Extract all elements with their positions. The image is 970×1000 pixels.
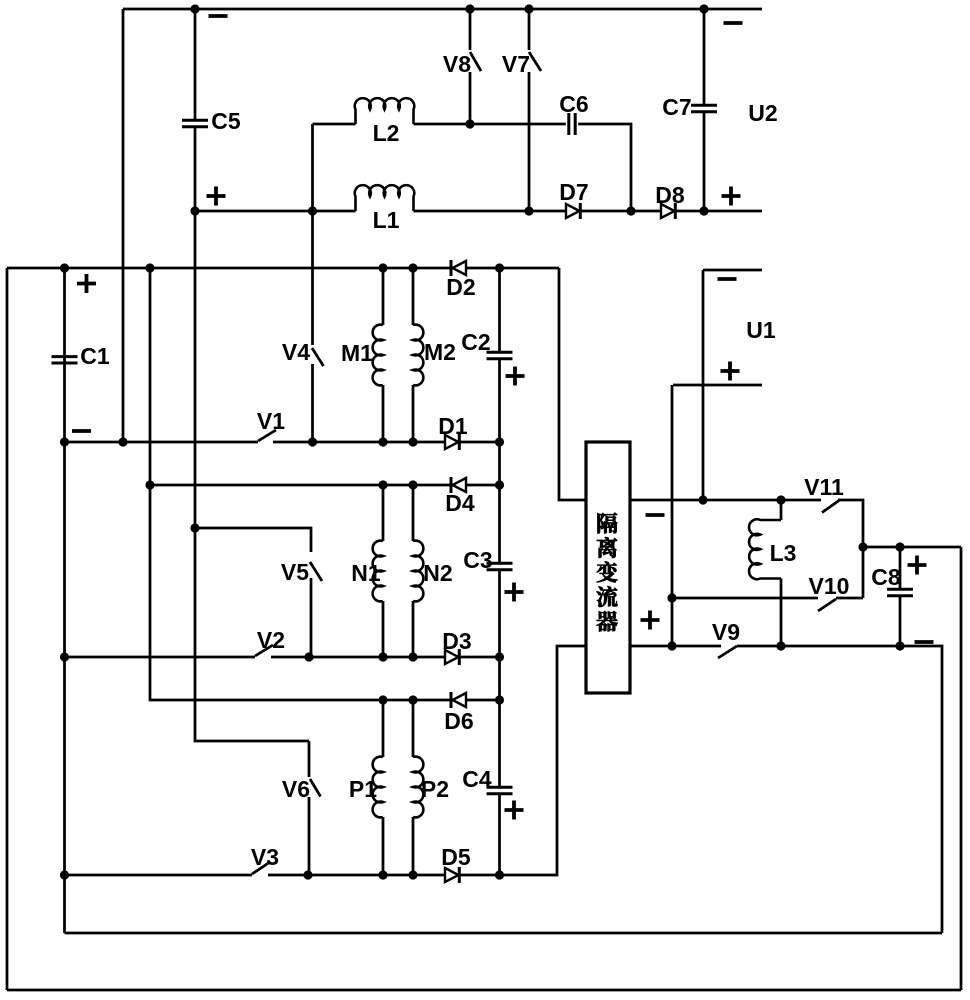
node junction at (781,646) xyxy=(776,641,785,650)
svg-text:D2: D2 xyxy=(446,274,475,300)
wire V4 lower lead xyxy=(311,364,314,442)
node junction at (499.5,268) xyxy=(495,263,504,272)
node junction at (413,485) xyxy=(408,480,417,489)
wire V1 rail left segment xyxy=(65,441,259,444)
polarity plus at C1 top xyxy=(77,274,96,293)
switch V11 blade xyxy=(822,501,839,513)
node junction at (383,485) xyxy=(378,480,387,489)
wire top bus (U2 minus rail) xyxy=(123,8,762,11)
node junction at (383,657) xyxy=(378,652,387,661)
node junction at (499.5,657) xyxy=(495,652,504,661)
node junction at (383,268) xyxy=(378,263,387,272)
capacitor C3 xyxy=(463,547,512,573)
wire C6 to D7 drop xyxy=(578,124,631,211)
wire V5 feed from x=195 xyxy=(195,528,311,552)
node junction at (195,9) xyxy=(190,4,199,13)
polarity minus at U1 xyxy=(718,277,737,281)
wire L3 lower lead xyxy=(780,579,783,647)
svg-text:V9: V9 xyxy=(712,619,740,645)
svg-text:V4: V4 xyxy=(282,339,310,365)
wire L3 upper lead xyxy=(780,500,783,520)
inductor N1 xyxy=(351,541,383,602)
wire V2 rail right segment through D3 xyxy=(271,656,500,659)
svg-text:C1: C1 xyxy=(80,343,110,369)
svg-text:C6: C6 xyxy=(559,91,588,117)
switch V3 blade xyxy=(252,862,270,874)
wire V3 rail left segment xyxy=(65,874,253,877)
node junction at (413,268) xyxy=(408,263,417,272)
svg-text:N2: N2 xyxy=(423,560,452,586)
wire capacitor stack bus seg3 xyxy=(498,570,501,787)
wire V11 right segment to corner xyxy=(838,500,863,598)
wire x=150 drop with D6 rail xyxy=(150,268,500,700)
polarity plus at C5 bottom rail xyxy=(207,187,226,206)
inductor P2 xyxy=(413,757,449,818)
diode D5 xyxy=(441,844,471,883)
node junction at (900,547) xyxy=(895,542,904,551)
node junction at (900,646) xyxy=(895,641,904,650)
switch V8 blade xyxy=(470,52,481,71)
polarity minus at C8 xyxy=(915,640,934,644)
wire V4 upper lead from L2/L1 junction xyxy=(311,124,314,345)
svg-text:V5: V5 xyxy=(281,559,309,585)
wire M2 leads xyxy=(412,268,415,442)
capacitor C2 xyxy=(461,329,512,359)
wire P1 leads xyxy=(382,700,385,875)
switch V4 blade xyxy=(312,348,324,366)
capacitor C8 xyxy=(871,564,913,596)
node junction at (413,700) xyxy=(408,695,417,704)
wire V6 upper lead xyxy=(308,741,311,777)
inductor L1 xyxy=(355,185,415,233)
wire C5 branch lower lead xyxy=(194,127,197,211)
wire main minus bus y=268 through D2 xyxy=(7,267,559,270)
svg-text:V1: V1 xyxy=(257,408,285,434)
svg-text:V8: V8 xyxy=(443,51,471,77)
inductor L2 xyxy=(355,98,414,146)
node junction at (470,124) xyxy=(465,119,474,128)
diode D1 xyxy=(438,413,468,450)
wire left drop from top bus to V1 rail xyxy=(122,9,125,442)
svg-text:V3: V3 xyxy=(251,844,279,870)
wire capacitor stack bus seg4 xyxy=(498,794,501,875)
wire V3 rail mid segment through D5 xyxy=(268,646,586,875)
svg-text:V11: V11 xyxy=(804,474,844,500)
node junction at (470,9) xyxy=(465,4,474,13)
svg-text:N1: N1 xyxy=(351,560,381,586)
wire left bus x=63 xyxy=(63,268,66,933)
wire bottom return bus xyxy=(65,932,943,935)
node junction at (64.5,875) xyxy=(60,870,69,879)
svg-text:C2: C2 xyxy=(461,329,490,355)
svg-text:D8: D8 xyxy=(655,182,685,208)
node junction at (312.5,211) xyxy=(308,206,317,215)
svg-text:U2: U2 xyxy=(748,100,777,126)
inductor M2 xyxy=(413,325,456,386)
wire V1 rail right segment through D1 xyxy=(273,441,500,444)
svg-text:V10: V10 xyxy=(809,573,850,599)
polarity plus at C4 xyxy=(505,801,524,820)
node junction at (64.5,657) xyxy=(60,652,69,661)
capacitor C6 xyxy=(559,91,588,135)
wire L2 rail left segment xyxy=(313,123,356,126)
wire V7 upper lead xyxy=(528,9,531,50)
node junction at (781,500) xyxy=(776,495,785,504)
svg-text:P1: P1 xyxy=(349,776,377,802)
svg-text:M2: M2 xyxy=(424,339,456,365)
wire outer loop right side xyxy=(960,547,963,990)
svg-text:V2: V2 xyxy=(257,627,285,653)
polarity plus at U2 xyxy=(722,187,741,206)
node junction at (308,875) xyxy=(303,870,312,879)
svg-text:D1: D1 xyxy=(438,413,468,439)
diode D8 xyxy=(655,182,685,219)
diode D6 xyxy=(444,692,473,734)
wire U1 minus lead drop xyxy=(702,270,705,500)
node junction at (704,9) xyxy=(699,4,708,13)
node junction at (195,528) xyxy=(190,523,199,532)
capacitor C1 xyxy=(52,343,110,369)
wire outer loop left side xyxy=(6,268,9,990)
node junction at (64.5,268) xyxy=(60,263,69,272)
polarity minus at converter output xyxy=(646,513,665,517)
wire C8 top rail xyxy=(863,546,961,549)
wire V10 rail right segment xyxy=(836,597,863,600)
svg-text:V7: V7 xyxy=(502,51,530,77)
node junction at (499.5,442) xyxy=(495,437,504,446)
node junction at (195,211) xyxy=(190,206,199,215)
wire capacitor stack bus seg2 xyxy=(498,359,501,563)
svg-text:L2: L2 xyxy=(373,120,400,146)
node junction at (529,211) xyxy=(524,206,533,215)
svg-text:M1: M1 xyxy=(341,340,373,366)
wire V7 lower lead xyxy=(528,72,531,211)
wire N2 leads xyxy=(412,485,415,657)
polarity plus at C3 xyxy=(505,583,524,602)
svg-text:D4: D4 xyxy=(445,490,475,516)
inductor P1 xyxy=(349,757,383,818)
svg-text:D7: D7 xyxy=(559,179,588,205)
capacitor C7 xyxy=(662,94,717,120)
node junction at (150,485) xyxy=(145,480,154,489)
node junction at (383,442) xyxy=(378,437,387,446)
switch V1 blade xyxy=(258,430,276,441)
node junction at (309,657) xyxy=(304,652,313,661)
polarity plus at C2 xyxy=(506,367,525,386)
wire P2 leads xyxy=(412,700,415,875)
node junction at (863,547) xyxy=(858,542,867,551)
wire V5 lower lead xyxy=(310,578,313,657)
svg-text:D3: D3 xyxy=(442,628,471,654)
wire V8 lower lead xyxy=(469,72,472,124)
node junction at (703,500) xyxy=(698,495,707,504)
isolation converter U3 (隔离变流器) xyxy=(586,442,630,693)
svg-text:L3: L3 xyxy=(770,540,797,566)
node junction at (383,700) xyxy=(378,695,387,704)
inductor L3 xyxy=(749,519,796,579)
svg-text:C4: C4 xyxy=(462,766,492,792)
diode D2 xyxy=(446,260,475,300)
node junction at (413,875) xyxy=(408,870,417,879)
svg-text:V6: V6 xyxy=(282,776,310,802)
node junction at (529,9) xyxy=(524,4,533,13)
node junction at (672,646) xyxy=(667,641,676,650)
svg-text:C5: C5 xyxy=(211,108,241,134)
wire capacitor stack bus seg1 xyxy=(498,268,501,352)
node junction at (631,211) xyxy=(626,206,635,215)
wire V9 rail right drop xyxy=(737,646,942,933)
svg-text:D6: D6 xyxy=(444,708,473,734)
wire C8 lower lead xyxy=(899,596,902,646)
wire L2 to C6 segment xyxy=(414,123,566,126)
wire U1 plus lead drop xyxy=(671,385,674,646)
switch V7 blade xyxy=(529,52,541,71)
wire U1 minus terminal line xyxy=(703,269,762,272)
wire V2 rail left segment xyxy=(65,656,256,659)
inductor M1 xyxy=(341,325,383,386)
wire C5/L1 plus rail y=211 xyxy=(195,210,356,213)
node junction at (123,442) xyxy=(118,437,127,446)
switch V5 blade xyxy=(310,562,322,581)
polarity plus at C8 xyxy=(908,556,927,575)
diode D7 xyxy=(559,179,588,219)
polarity plus at U1 xyxy=(721,362,740,381)
node junction at (312.5,442) xyxy=(308,437,317,446)
wire C5 branch upper lead xyxy=(194,9,197,120)
wire D4 rail through diode xyxy=(150,484,500,487)
node junction at (413,657) xyxy=(408,652,417,661)
wire C7 upper lead xyxy=(703,9,706,105)
wire converter plus output rail (V9 left) xyxy=(631,645,721,648)
wire V6 lower lead xyxy=(308,797,311,875)
polarity plus at converter output xyxy=(641,611,660,630)
wire C7 lower lead xyxy=(703,112,706,211)
node junction at (64.5,442) xyxy=(60,437,69,446)
node junction at (672,598) xyxy=(667,593,676,602)
diode D3 xyxy=(442,628,471,665)
wire L1/D7/D8 to U2 plus rail xyxy=(414,210,763,213)
wire V10 rail left segment xyxy=(672,597,818,600)
polarity minus at C5 top / U2 negative rail xyxy=(209,14,228,18)
node junction at (704,211) xyxy=(699,206,708,215)
wire outer loop bottom xyxy=(7,989,961,992)
switch V10 blade xyxy=(818,599,836,611)
wire M1 leads xyxy=(382,268,385,442)
wire U1 plus terminal line xyxy=(673,384,762,387)
wire x=195 drop (C5 plus to V6 feed) xyxy=(195,211,309,741)
svg-text:P2: P2 xyxy=(421,776,449,802)
node junction at (499.5,700) xyxy=(495,695,504,704)
capacitor C4 xyxy=(462,766,512,794)
switch V9 blade xyxy=(718,646,737,658)
wire V8 upper lead xyxy=(469,9,472,50)
polarity minus at U2 xyxy=(724,21,743,25)
wire N1 leads xyxy=(382,485,385,657)
node junction at (499.5,875) xyxy=(495,870,504,879)
wire C8 upper lead xyxy=(899,547,902,589)
switch V6 blade xyxy=(310,779,321,797)
switch V2 blade xyxy=(255,645,273,656)
polarity minus at C1 bottom xyxy=(72,429,91,433)
wire converter minus output rail y=500 xyxy=(631,499,821,502)
svg-text:U1: U1 xyxy=(746,317,776,343)
inductor N2 xyxy=(413,541,453,602)
node junction at (413,442) xyxy=(408,437,417,446)
svg-text:D5: D5 xyxy=(441,844,471,870)
node junction at (150,268) xyxy=(145,263,154,272)
svg-text:C3: C3 xyxy=(463,547,492,573)
svg-text:C7: C7 xyxy=(662,94,691,120)
node junction at (383,875) xyxy=(378,870,387,879)
svg-text:L1: L1 xyxy=(373,207,400,233)
wire drop to isolation converter top-left input xyxy=(559,268,586,500)
diode D4 xyxy=(445,477,475,516)
svg-text:C8: C8 xyxy=(871,564,901,590)
node junction at (499.5,485) xyxy=(495,480,504,489)
capacitor C5 xyxy=(182,108,241,134)
